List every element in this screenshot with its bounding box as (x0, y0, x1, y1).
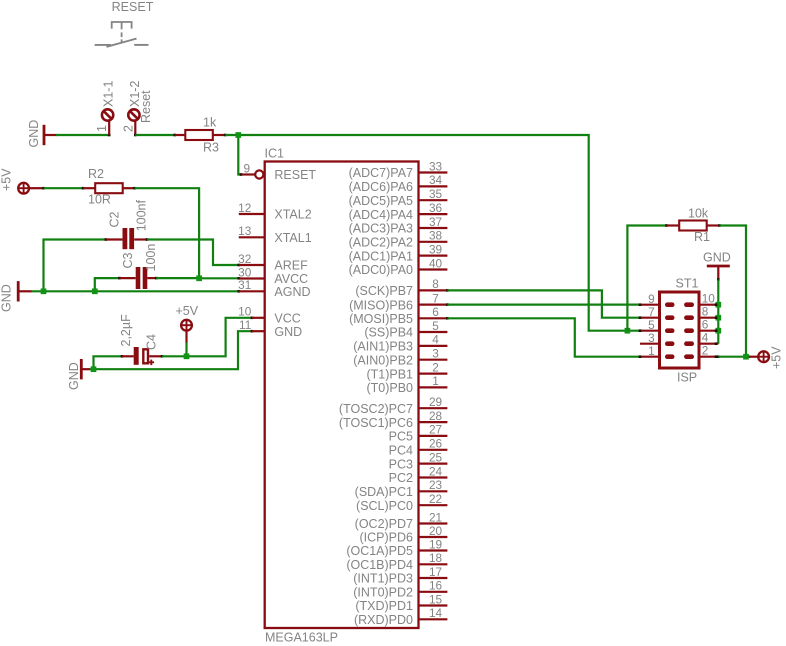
ground GND (X1-1) (43, 125, 46, 145)
wire C2 to AREF pin 32 (147, 240, 239, 266)
svg-text:(ADC2)PA2: (ADC2)PA2 (349, 236, 413, 250)
wire SCK: IC pin8 to ST1 pin7 (446, 289, 449, 292)
svg-text:VCC: VCC (274, 312, 300, 326)
svg-text:GND: GND (67, 362, 81, 390)
svg-text:19: 19 (429, 537, 442, 551)
svg-text:PC3: PC3 (389, 457, 413, 471)
pin 35 (ADC5)PA5 (419, 199, 448, 201)
pin 19 (OC1A)PD5 (419, 549, 448, 551)
svg-text:21: 21 (429, 510, 442, 524)
svg-text:39: 39 (429, 242, 442, 256)
svg-text:+5V: +5V (770, 346, 784, 369)
svg-text:PC2: PC2 (389, 471, 413, 485)
svg-text:26: 26 (429, 437, 443, 451)
ground GND (ISP) (707, 265, 730, 268)
pin 28 (TOSC1)PC6 (419, 421, 448, 423)
pushbutton S1 RESET (gray symbol) (95, 22, 149, 47)
junction +5V/R1 (743, 354, 749, 360)
svg-text:7: 7 (648, 305, 655, 319)
junction +5V/C4 (184, 353, 190, 359)
pin 3 (AIN0)PB2 (419, 359, 448, 361)
svg-text:8: 8 (702, 304, 709, 318)
svg-text:5: 5 (432, 319, 439, 333)
svg-text:(ADC7)PA7: (ADC7)PA7 (349, 166, 413, 180)
wire ISP GND column (717, 278, 720, 281)
connector pad X1-2 (128, 109, 139, 120)
svg-text:28: 28 (429, 409, 443, 423)
svg-text:14: 14 (429, 606, 443, 620)
svg-text:(ADC1)PA1: (ADC1)PA1 (349, 249, 413, 263)
pin 9 RESET with bubble (242, 173, 255, 175)
svg-text:6: 6 (432, 305, 439, 319)
svg-text:(TOSC2)PC7: (TOSC2)PC7 (339, 402, 413, 416)
svg-text:(ADC0)PA0: (ADC0)PA0 (349, 263, 413, 277)
svg-text:16: 16 (429, 579, 443, 593)
svg-text:1: 1 (648, 344, 655, 358)
svg-text:GND: GND (27, 120, 41, 148)
pin 39 (ADC1)PA1 (419, 255, 448, 257)
svg-text:Reset: Reset (139, 90, 153, 123)
pin 34 (ADC6)PA6 (419, 185, 448, 187)
supply +5V (R2) (18, 183, 29, 194)
svg-text:C3: C3 (121, 252, 135, 268)
svg-text:ISP: ISP (677, 371, 697, 385)
capacitor C2 100nf (44, 240, 106, 292)
svg-text:7: 7 (432, 291, 439, 305)
pin 33 (ADC7)PA7 (419, 171, 448, 173)
supply +5V (VCC) (181, 320, 192, 331)
svg-text:RESET: RESET (112, 0, 154, 14)
svg-text:(AIN0)PB2: (AIN0)PB2 (353, 353, 413, 367)
svg-text:(ADC5)PA5: (ADC5)PA5 (349, 194, 413, 208)
pin 29 (TOSC2)PC7 (419, 407, 448, 409)
resistor R2 10R (42, 187, 45, 190)
ST1 pins 9/10 (640, 304, 660, 306)
svg-text:18: 18 (429, 551, 443, 565)
svg-text:(ADC3)PA3: (ADC3)PA3 (349, 222, 413, 236)
svg-text:23: 23 (429, 478, 443, 492)
svg-text:(INT1)PD3: (INT1)PD3 (353, 572, 413, 586)
svg-text:1k: 1k (203, 116, 217, 130)
connector pad X1-1 (102, 109, 113, 120)
svg-text:GND: GND (703, 251, 731, 265)
junction RESET/R1/ST1-5 (625, 328, 631, 334)
ground GND (C4) (80, 359, 83, 379)
svg-text:(RXD)PD0: (RXD)PD0 (354, 613, 413, 627)
svg-text:20: 20 (429, 524, 443, 538)
pin 5 (SS)PB4 (419, 331, 448, 333)
svg-text:(OC1A)PD5: (OC1A)PD5 (346, 544, 413, 558)
pin 25 PC3 (419, 463, 448, 465)
svg-text:AGND: AGND (274, 285, 310, 299)
pin 17 (INT1)PD3 (419, 577, 448, 579)
svg-text:3: 3 (648, 331, 655, 345)
svg-text:100n: 100n (144, 244, 158, 272)
svg-text:(MOSI)PB5: (MOSI)PB5 (349, 312, 413, 326)
wire GND to X1-1 (56, 134, 109, 136)
svg-text:24: 24 (429, 464, 443, 478)
svg-text:4: 4 (432, 333, 439, 347)
svg-text:IC1: IC1 (265, 147, 285, 161)
svg-text:PC5: PC5 (389, 430, 413, 444)
svg-text:(OC1B)PD4: (OC1B)PD4 (346, 558, 413, 572)
svg-text:11: 11 (239, 318, 251, 332)
junction AVCC (196, 275, 202, 281)
svg-text:9: 9 (648, 292, 655, 306)
svg-text:36: 36 (429, 201, 443, 215)
svg-text:17: 17 (429, 565, 442, 579)
svg-text:38: 38 (429, 229, 443, 243)
svg-text:3: 3 (432, 347, 439, 361)
pin 37 (ADC3)PA3 (419, 227, 448, 229)
svg-text:22: 22 (429, 492, 442, 506)
svg-text:(T0)PB0: (T0)PB0 (366, 381, 413, 395)
svg-text:R3: R3 (203, 141, 219, 155)
wire MOSI: IC pin6 to ST1 pin1 (446, 317, 449, 320)
wire AGND net (31, 290, 239, 292)
ST1 pins 7/8 (640, 317, 660, 319)
svg-text:10k: 10k (688, 207, 709, 221)
svg-text:X1-1: X1-1 (102, 81, 116, 107)
pin 31 AGND (239, 290, 265, 292)
junction GND/C4 (91, 366, 97, 372)
capacitor C3 100n (95, 278, 120, 291)
pin 6 (MOSI)PB5 (419, 317, 448, 319)
pin 12 XTAL2 (239, 213, 265, 215)
pin 20 (ICP)PD6 (419, 536, 448, 538)
wire R1 to +5V (720, 226, 747, 357)
svg-text:13: 13 (238, 224, 252, 238)
op-amp IC1 MEGA163LP body (265, 162, 419, 629)
svg-text:(ADC4)PA4: (ADC4)PA4 (349, 208, 413, 222)
svg-text:GND: GND (274, 325, 302, 339)
pin 10 VCC (252, 317, 265, 319)
svg-text:PC4: PC4 (389, 444, 413, 458)
svg-text:(T1)PB1: (T1)PB1 (366, 367, 413, 381)
svg-text:MEGA163LP: MEGA163LP (265, 631, 338, 645)
svg-text:R1: R1 (694, 230, 710, 244)
svg-text:RESET: RESET (274, 168, 316, 182)
svg-text:R2: R2 (88, 167, 104, 181)
plus mark C4 (149, 361, 155, 363)
svg-text:XTAL1: XTAL1 (274, 231, 311, 245)
ST1 pins 3/4 (640, 343, 660, 345)
wire X1-2 to R3 (134, 134, 137, 137)
pin 36 (ADC4)PA4 (419, 213, 448, 215)
pin 7 (MISO)PB6 (419, 304, 448, 306)
pin 40 (ADC0)PA0 (419, 268, 448, 270)
svg-text:4: 4 (702, 330, 709, 344)
pin 16 (INT0)PD2 (419, 591, 448, 593)
svg-text:10: 10 (702, 291, 716, 305)
pin 32 AREF (239, 264, 265, 266)
junction AGND/C3 (92, 288, 98, 294)
pin 38 (ADC2)PA2 (419, 241, 448, 243)
svg-text:34: 34 (429, 173, 443, 187)
svg-text:(SS)PB4: (SS)PB4 (364, 326, 413, 340)
svg-text:C4: C4 (145, 334, 159, 350)
svg-text:33: 33 (429, 159, 443, 173)
svg-text:(ADC6)PA6: (ADC6)PA6 (349, 180, 413, 194)
pin 26 PC4 (419, 449, 448, 451)
pin 4 (AIN1)PB3 (419, 345, 448, 347)
svg-text:10R: 10R (88, 193, 111, 207)
pin 8 (SCK)PB7 (419, 289, 448, 291)
svg-text:(SDA)PC1: (SDA)PC1 (355, 485, 413, 499)
supply +5V (ISP) (749, 356, 758, 358)
svg-text:(TOSC1)PC6: (TOSC1)PC6 (339, 416, 413, 430)
svg-text:31: 31 (238, 278, 251, 292)
svg-text:6: 6 (702, 317, 709, 331)
pin 2 (T1)PB1 (419, 373, 448, 375)
svg-text:32: 32 (238, 252, 251, 266)
ST1 pins 5/6 (640, 330, 660, 332)
resistor R3 1k (174, 134, 177, 137)
svg-text:(OC2)PD7: (OC2)PD7 (355, 517, 413, 531)
pin 1 (T0)PB0 (419, 386, 448, 388)
svg-text:37: 37 (429, 215, 442, 229)
svg-text:27: 27 (429, 423, 442, 437)
wire MISO: IC pin7 to ST1 pin9 (446, 303, 449, 306)
junction ISP GND pin10 (715, 302, 721, 308)
wire junction to IC pin 9 (238, 135, 241, 175)
svg-text:GND: GND (0, 284, 14, 312)
svg-text:35: 35 (429, 187, 443, 201)
svg-text:2: 2 (702, 343, 709, 357)
pin 30 AVCC (239, 277, 265, 279)
wire GND to IC pin 11 (90, 331, 252, 369)
wire C4 to +5V junction to VCC pin 10 (162, 318, 252, 357)
pin 13 XTAL1 (239, 236, 265, 238)
svg-text:29: 29 (429, 395, 442, 409)
svg-text:8: 8 (432, 277, 439, 291)
svg-text:12: 12 (238, 201, 251, 215)
pin 15 (TXD)PD1 (419, 604, 448, 606)
svg-text:+5V: +5V (176, 304, 199, 318)
wire C3 to AVCC junction (156, 277, 199, 279)
svg-text:25: 25 (429, 450, 443, 464)
wire RESET net top run (225, 135, 640, 331)
svg-text:(ICP)PD6: (ICP)PD6 (360, 531, 414, 545)
svg-text:1: 1 (95, 125, 109, 132)
svg-text:(TXD)PD1: (TXD)PD1 (355, 599, 413, 613)
pin 23 (SDA)PC1 (419, 490, 448, 492)
svg-text:2: 2 (432, 360, 439, 374)
svg-text:ST1: ST1 (676, 277, 699, 291)
svg-text:10: 10 (238, 305, 252, 319)
ground GND (AGND) (17, 281, 20, 301)
junction AGND/C2 (41, 288, 47, 294)
svg-text:AREF: AREF (274, 259, 308, 273)
svg-text:9: 9 (243, 162, 250, 176)
pin 24 PC2 (419, 476, 448, 478)
svg-text:(MISO)PB6: (MISO)PB6 (349, 298, 413, 312)
svg-text:5: 5 (648, 318, 655, 332)
svg-text:(SCK)PB7: (SCK)PB7 (355, 284, 413, 298)
pin 14 (RXD)PD0 (419, 618, 448, 620)
connector ST1 ISP body (660, 292, 700, 368)
svg-text:1: 1 (432, 374, 439, 388)
svg-text:100nf: 100nf (135, 199, 149, 231)
pin 18 (OC1B)PD4 (419, 563, 448, 565)
svg-text:15: 15 (429, 592, 443, 606)
svg-text:XTAL2: XTAL2 (274, 208, 311, 222)
svg-text:+5V: +5V (0, 168, 14, 191)
svg-text:(AIN1)PB3: (AIN1)PB3 (353, 340, 413, 354)
pin 11 GND (252, 330, 265, 332)
svg-text:2: 2 (122, 125, 136, 132)
svg-text:2,2µF: 2,2µF (119, 314, 133, 347)
junction ISP GND pin8 (715, 315, 721, 321)
pin 27 PC5 (419, 435, 448, 437)
svg-text:(INT0)PD2: (INT0)PD2 (353, 586, 413, 600)
capacitor C4 2.2µF polarized (94, 356, 123, 369)
wire ST1 pin2 to +5V (717, 355, 720, 358)
wire R2 to AVCC (135, 188, 239, 278)
svg-text:40: 40 (429, 256, 443, 270)
pin 22 (SCL)PC0 (419, 504, 448, 506)
resistor R1 10k (627, 226, 666, 331)
junction ISP GND pin6 (715, 328, 721, 334)
svg-text:C2: C2 (108, 211, 122, 227)
svg-text:(SCL)PC0: (SCL)PC0 (356, 499, 413, 513)
pin 21 (OC2)PD7 (419, 522, 448, 524)
junction RESET/R3 (235, 132, 241, 138)
ST1 pins 1/2 (640, 356, 660, 358)
